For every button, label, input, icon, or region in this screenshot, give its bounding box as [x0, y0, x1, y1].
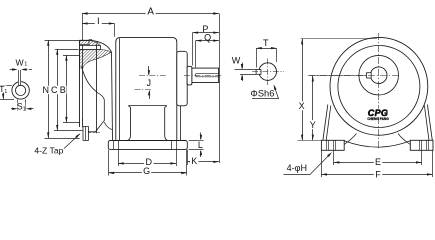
svg-text:F: F [375, 169, 381, 179]
input flange left face [79, 40, 81, 127]
front keyway box [367, 73, 372, 78]
dim J (shaft offset) [148, 66, 150, 75]
front right foot [410, 140, 433, 150]
svg-text:W: W [15, 57, 24, 67]
dim T1 (key depth) [0, 85, 12, 87]
right gusset curve [398, 134, 410, 145]
output shaft section circle [259, 63, 277, 81]
svg-text:X: X [299, 101, 305, 111]
dim Q [196, 40, 219, 42]
pedestal right side with fillet [165, 106, 171, 141]
input shaft section outer circle [12, 82, 29, 99]
svg-text:Q: Q [204, 32, 211, 42]
dim F (overall width) [321, 150, 323, 177]
left foot slot lines [326, 140, 328, 150]
front left leg [323, 105, 328, 141]
gear centerline [135, 89, 153, 91]
shaft centerline [139, 75, 166, 77]
dim T (across key) [256, 48, 258, 67]
svg-text:I: I [97, 16, 100, 27]
svg-text:ΦSh6: ΦSh6 [250, 89, 274, 99]
svg-text:G: G [143, 166, 150, 176]
front body outer circle [330, 37, 428, 135]
front horizontal centerline [308, 75, 399, 77]
svg-text:N: N [43, 85, 50, 95]
svg-text:W: W [232, 55, 241, 65]
dim I (flange length) [82, 23, 114, 25]
flange bottom block with tap boss [83, 127, 88, 141]
input keyway slot [18, 81, 21, 86]
dim B [63, 55, 79, 57]
dim N (vertical) with extension lines [45, 40, 80, 42]
base plate [108, 141, 187, 150]
flange top hatched block [80, 40, 89, 44]
svg-text:E: E [375, 157, 381, 167]
right extension line at shaft end [219, 14, 221, 164]
svg-text:1: 1 [24, 61, 27, 67]
bottom arch between feet [344, 141, 410, 147]
tap hole hidden line (dash-dot) [82, 119, 84, 128]
bell housing outer bulge [89, 40, 113, 140]
dim K [187, 150, 189, 165]
svg-text:A: A [147, 7, 154, 18]
svg-text:C: C [51, 85, 58, 95]
right foot slot lines [419, 140, 421, 150]
output key box [256, 70, 261, 75]
flange right face [96, 44, 98, 133]
bell housing inner curve [82, 66, 97, 91]
front right leg [427, 105, 432, 141]
svg-text:CHENG PANG: CHENG PANG [367, 117, 389, 121]
dim G (base width) [108, 150, 110, 176]
label Sh6 with underline leader [252, 98, 279, 100]
body rear seam line [180, 106, 182, 140]
pedestal left side with fillet [125, 106, 131, 141]
front left foot [321, 140, 344, 150]
svg-text:B: B [60, 85, 66, 95]
svg-text:K: K [191, 156, 197, 166]
svg-text:Y: Y [310, 120, 316, 130]
label 4-phiH with leader [284, 174, 310, 176]
dim C [55, 49, 79, 51]
output end housing [177, 51, 187, 106]
input bore lines [80, 45, 101, 47]
front shaft circle [370, 67, 387, 84]
svg-text:4-Z Tap: 4-Z Tap [34, 146, 63, 156]
front second circle [338, 46, 420, 128]
svg-text:4-φH: 4-φH [287, 163, 307, 173]
svg-text:J: J [147, 78, 152, 88]
pedestal top edge [128, 105, 167, 107]
front vertical centerline [378, 33, 380, 150]
detail centerlines [252, 71, 284, 73]
output shaft [192, 68, 219, 82]
main gear body outline (sides run to base) [116, 38, 177, 141]
CPG logo [365, 109, 391, 117]
svg-text:L: L [198, 140, 203, 150]
dim E (foot hole span) [333, 150, 335, 165]
left gusset curve [344, 134, 356, 145]
dim Y (shaft center height) [310, 75, 367, 77]
base mounting hole ticks [113, 141, 115, 150]
body front rim seam line [119, 38, 121, 140]
shaft keyway slot [195, 73, 218, 77]
dim L (base plate thickness) [189, 140, 204, 142]
worm shaft spline steps (hatched) [89, 40, 101, 46]
flange hatched wedge section [80, 50, 112, 68]
dim A (overall length) with extension lines [82, 13, 219, 15]
dim X (center height top) [301, 38, 377, 40]
input shaft bore circle [16, 85, 26, 95]
dim P (shaft length) [193, 32, 219, 34]
label 4-Z Tap with leader [64, 134, 80, 149]
dim S1 [17, 100, 19, 111]
svg-text:T: T [263, 38, 269, 48]
dim D (foot hole span) [118, 150, 120, 166]
front shaft boss circle [359, 55, 399, 95]
bearing cap [187, 66, 192, 85]
